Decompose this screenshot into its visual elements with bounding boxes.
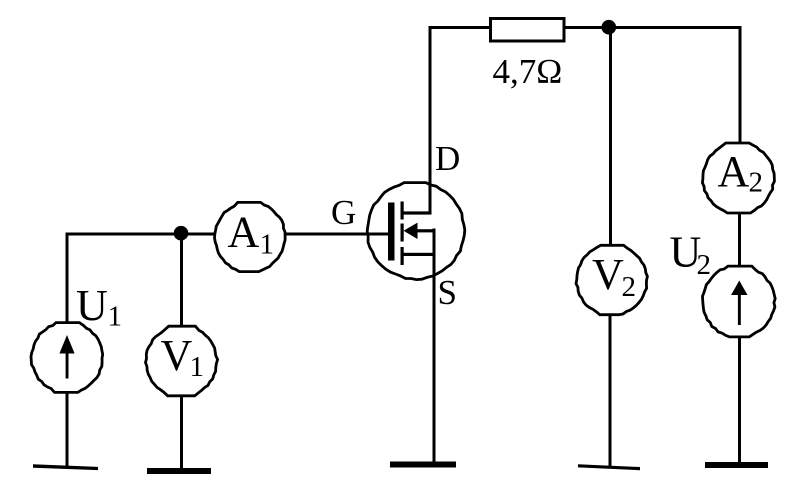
transistor Q1 body circle (MOSFET) bbox=[367, 183, 465, 280]
transistor Q1 channel segment (drain side) bbox=[401, 202, 404, 220]
wire: source lead (node S) from Q1 down to ground bbox=[433, 229, 436, 464]
svg-text:A: A bbox=[228, 207, 260, 256]
ground symbol under U1 bbox=[33, 464, 98, 470]
svg-text:2: 2 bbox=[749, 167, 764, 199]
ground symbol under Q1 source bbox=[390, 462, 456, 468]
ammeter A1 circle bbox=[215, 202, 286, 271]
wire: U1 bottom lead to ground bbox=[66, 393, 69, 468]
svg-text:1: 1 bbox=[260, 229, 275, 261]
svg-text:S: S bbox=[438, 273, 457, 312]
transistor Q1 drain stub bbox=[402, 211, 432, 214]
ground symbol under V2 bbox=[578, 464, 640, 470]
svg-text:V: V bbox=[592, 250, 624, 299]
wire: drain branch vertical (node D) from top bus down to Q1 drain stub bbox=[429, 26, 432, 214]
svg-text:2: 2 bbox=[622, 271, 637, 303]
svg-text:A: A bbox=[718, 147, 750, 196]
svg-text:4,7Ω: 4,7Ω bbox=[493, 52, 563, 91]
transistor Q1 channel segment (body) bbox=[401, 224, 404, 242]
svg-text:2: 2 bbox=[697, 249, 712, 281]
junction: top node joining R, V2 branch and A2 branch bbox=[602, 20, 617, 35]
wire: link between A2 bottom and U2 top bbox=[738, 213, 741, 266]
resistor R1 body (4,7 ohm) bbox=[491, 19, 565, 42]
transistor Q1 gate electrode bar bbox=[388, 203, 395, 261]
wire: gate bus from A1 right terminal to Q1 gate (node G) bbox=[285, 233, 389, 236]
ammeter A2 circle bbox=[702, 143, 774, 213]
ground symbol under U2 bbox=[705, 462, 768, 468]
wire: right branch vertical from top bus corner down to A2 bbox=[739, 26, 742, 144]
svg-text:V: V bbox=[161, 331, 193, 380]
wire: V2 branch upper segment from top junction down to V2 bbox=[609, 28, 612, 246]
wire: V1 branch from gate junction down to V1 top bbox=[180, 234, 183, 326]
wire: left gate bus from U1 corner to A1 left terminal bbox=[67, 233, 217, 236]
wire: V1 bottom lead to ground bbox=[180, 397, 183, 471]
voltage source U2 circle bbox=[703, 266, 776, 337]
voltmeter V2 circle bbox=[576, 245, 647, 314]
current arrow inside source U1 bbox=[66, 348, 69, 379]
svg-text:D: D bbox=[435, 139, 460, 178]
voltmeter V1 circle bbox=[146, 326, 218, 396]
transistor Q1 source stub bbox=[402, 253, 436, 256]
transistor Q1 channel segment (source side) bbox=[401, 247, 404, 265]
junction: gate node joining U1, V1 and A1 bbox=[174, 226, 189, 241]
transistor Q1 body arrow to S rail bbox=[410, 229, 436, 232]
svg-text:1: 1 bbox=[190, 351, 205, 383]
wire: top bus from D-branch corner to resistor R left terminal bbox=[429, 26, 491, 29]
svg-text:G: G bbox=[331, 193, 356, 232]
ground symbol under V1 bbox=[147, 468, 211, 474]
svg-text:U: U bbox=[76, 281, 108, 330]
wire: top bus from resistor R right terminal through junction to right corner bbox=[564, 26, 740, 29]
wire: U1 branch from gate bus down to U1 top bbox=[66, 233, 69, 323]
voltage source U1 circle bbox=[31, 323, 103, 393]
current arrow inside source U2 bbox=[738, 291, 741, 325]
svg-text:1: 1 bbox=[108, 300, 123, 332]
wire: V2 bottom lead to ground bbox=[609, 315, 612, 468]
wire: U2 bottom lead to ground bbox=[738, 337, 741, 464]
